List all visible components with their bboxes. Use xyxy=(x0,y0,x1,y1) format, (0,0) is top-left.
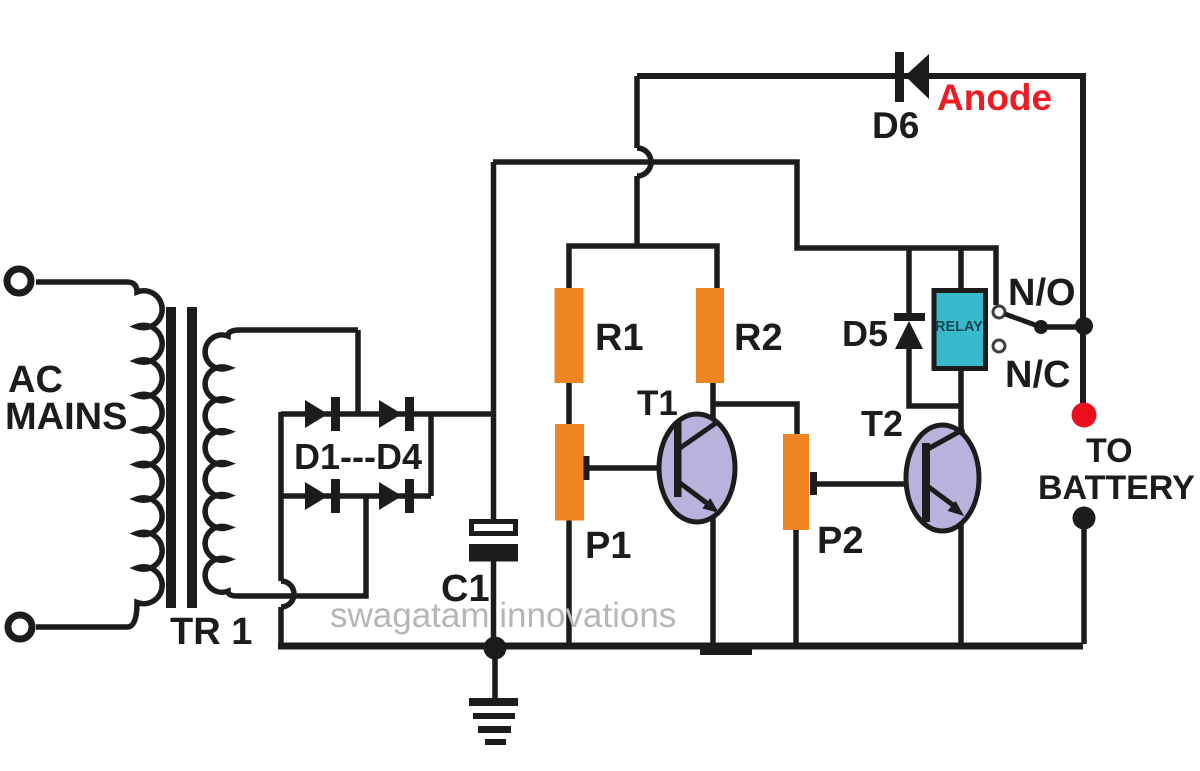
svg-text:R2: R2 xyxy=(734,317,783,359)
svg-text:swagatam innovations: swagatam innovations xyxy=(330,596,676,635)
svg-text:AC: AC xyxy=(8,359,63,401)
svg-text:R1: R1 xyxy=(595,317,644,359)
svg-text:N/C: N/C xyxy=(1005,354,1070,396)
svg-text:N/O: N/O xyxy=(1008,272,1076,314)
svg-text:MAINS: MAINS xyxy=(5,396,127,438)
svg-text:D5: D5 xyxy=(842,313,888,354)
svg-text:Anode: Anode xyxy=(937,77,1052,118)
svg-text:D1---D4: D1---D4 xyxy=(294,436,422,477)
svg-text:TR 1: TR 1 xyxy=(170,611,252,653)
svg-text:BATTERY: BATTERY xyxy=(1038,469,1195,507)
svg-text:T1: T1 xyxy=(637,384,678,423)
svg-text:D6: D6 xyxy=(872,105,919,146)
svg-text:P1: P1 xyxy=(585,525,631,567)
svg-text:P2: P2 xyxy=(817,520,863,562)
svg-text:RELAY: RELAY xyxy=(935,319,983,335)
svg-text:TO: TO xyxy=(1086,432,1133,470)
svg-text:T2: T2 xyxy=(861,403,903,444)
